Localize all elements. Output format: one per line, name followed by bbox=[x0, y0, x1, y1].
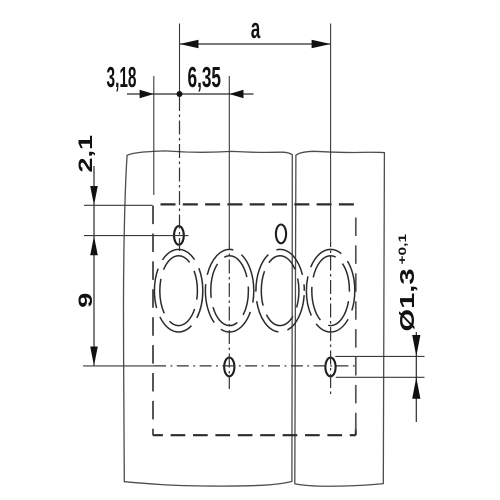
dimension a: right arrowhead bbox=[312, 40, 331, 48]
dimension a: dimension line bbox=[180, 43, 331, 45]
dimension a: extension line left (x=179) bbox=[179, 24, 181, 95]
svg-text:2,1: 2,1 bbox=[75, 135, 96, 173]
center line vertical through H1 (dash-dot) bbox=[179, 97, 181, 251]
dashed rectangle: bottom-right corner tick bbox=[355, 429, 357, 436]
hole H4 bottom-right oblong bbox=[325, 358, 335, 377]
dimension 3,18: arrowhead pointing right at x=153.8 bbox=[140, 90, 154, 99]
dashed rectangle: bottom edge bbox=[153, 434, 356, 436]
contact C4 inner dashed ellipse bbox=[312, 256, 350, 326]
dashed rectangle: left edge bbox=[152, 206, 154, 436]
svg-text:6,35: 6,35 bbox=[188, 62, 222, 94]
dimension 3,18/6,35: extension line left (x=153.8) bbox=[153, 76, 155, 195]
svg-text:3,18: 3,18 bbox=[107, 62, 137, 94]
hole H2 top-right oblong bbox=[276, 225, 286, 244]
contact C3 outer dashed ellipse bbox=[256, 249, 304, 332]
dimension dia 1,3: upper arrowhead pointing down bbox=[412, 335, 420, 356]
dimension 2,1: top arrowhead pointing down bbox=[90, 186, 98, 205]
left panel outline bbox=[123, 151, 292, 486]
reference line y=205.3 (top of outline) bbox=[84, 204, 153, 206]
dimension 3,18/6,35: dimension line bbox=[127, 93, 254, 95]
right panel outline bbox=[295, 151, 385, 486]
center line vertical through C2 and H3 (dash-dot) bbox=[228, 241, 230, 389]
reference line y=235.6 (through hole H1) bbox=[84, 235, 189, 237]
contact C2 outer dashed ellipse bbox=[205, 249, 253, 332]
dimension 9: bottom arrowhead pointing down bbox=[90, 347, 98, 366]
svg-text:Ø1,3: Ø1,3 bbox=[396, 269, 419, 332]
dimension 2,1/9 shared arrowhead pointing up at y=235.6 bbox=[90, 236, 98, 255]
center line horizontal through bottom holes (dash-dot) bbox=[154, 365, 356, 367]
contact C3 inner dashed ellipse bbox=[261, 256, 299, 326]
dimension 2,1/9: vertical dimension line x=94 bbox=[93, 166, 95, 366]
svg-text:+0,1: +0,1 bbox=[396, 233, 408, 264]
contact C1 outer dashed ellipse bbox=[154, 249, 202, 332]
reference line y=365.9 (bottom hole row) bbox=[83, 365, 154, 367]
hole H3 bottom-left oblong bbox=[224, 358, 234, 377]
center line vertical through C4 and H4 (dash-dot) bbox=[330, 242, 332, 397]
dimension 3,18/6,35: extension line right (x=229.3) bbox=[228, 76, 230, 241]
contact C2 inner dashed ellipse bbox=[211, 256, 249, 326]
dimension a: extension line right (x=330) bbox=[330, 24, 332, 243]
svg-text:a: a bbox=[251, 13, 261, 45]
node dot at x=179 on dimension line bbox=[177, 91, 183, 97]
dashed rectangle (component outline): top edge bbox=[161, 203, 356, 205]
dimension dia 1,3: lower arrowhead pointing up bbox=[412, 377, 420, 398]
contact C1 inner dashed ellipse bbox=[160, 256, 198, 326]
svg-text:9: 9 bbox=[75, 293, 96, 308]
hole H1 top-left oblong bbox=[174, 226, 184, 245]
contact C4 outer dashed ellipse bbox=[306, 249, 354, 332]
dimension 6,35: arrowhead pointing left at x=229.3 bbox=[229, 90, 243, 99]
dimension dia 1,3: reference line top tangent bbox=[335, 355, 424, 357]
dimension dia 1,3: vertical dimension line bbox=[415, 332, 417, 422]
dimension a: left arrowhead bbox=[180, 40, 199, 48]
dashed rectangle: right edge bbox=[355, 215, 357, 436]
dimension dia 1,3: reference line bottom tangent bbox=[336, 376, 425, 378]
